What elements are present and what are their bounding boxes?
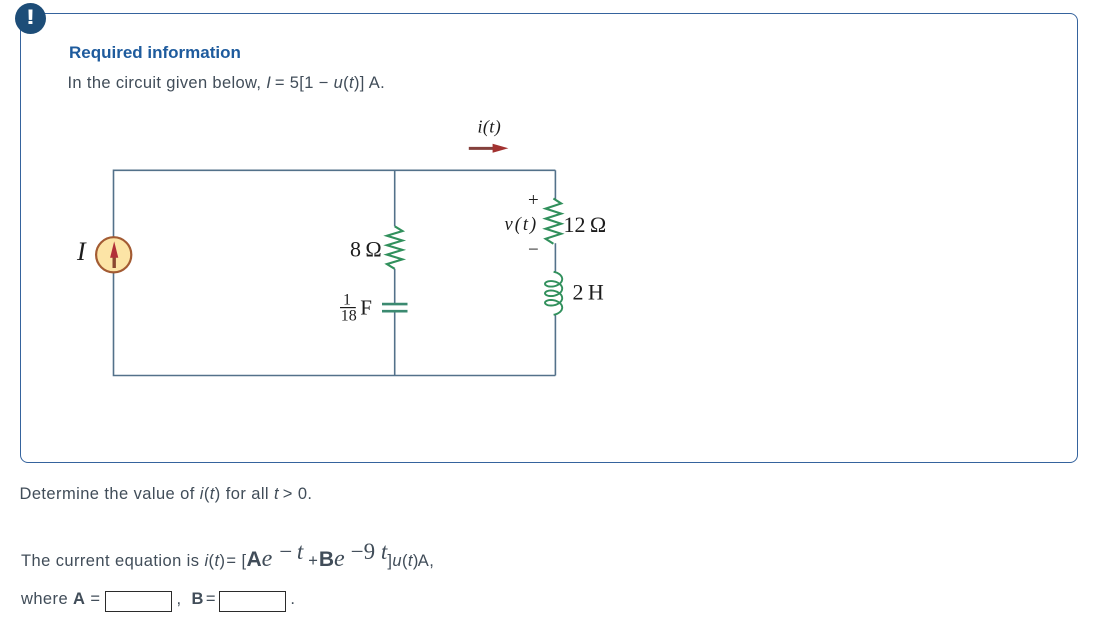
capacitor C1 1/18 F — [382, 304, 408, 311]
wire outer loop (top, left, bottom) — [114, 170, 556, 375]
svg-text:2 H: 2 H — [573, 279, 604, 304]
svg-text:1: 1 — [343, 292, 351, 309]
wire middle branch lower — [394, 312, 396, 375]
wire right branch upper — [554, 170, 556, 199]
svg-text:i(t): i(t) — [478, 117, 502, 138]
question line — [20, 485, 313, 504]
exclamation icon — [15, 3, 46, 34]
resistor R1 8 ohm — [387, 226, 403, 268]
info card border — [20, 13, 1078, 463]
svg-text:12 Ω: 12 Ω — [564, 212, 607, 237]
label 1/18 F — [340, 292, 372, 325]
wire middle branch between resistor and capacitor — [394, 269, 396, 303]
resistor R2 12 ohm — [546, 199, 562, 244]
heading — [69, 43, 241, 63]
current source I — [96, 237, 131, 272]
equation line — [21, 546, 434, 573]
wire right branch between resistor and inductor — [554, 243, 556, 272]
inductor L1 2 H — [545, 272, 562, 315]
svg-text:−: − — [528, 240, 539, 261]
svg-text:8 Ω: 8 Ω — [350, 237, 382, 262]
wire right branch lower — [554, 315, 556, 376]
svg-text:F: F — [360, 296, 372, 320]
wire middle branch upper — [394, 170, 396, 226]
arrow i(t) — [469, 144, 509, 153]
svg-text:v(t): v(t) — [505, 215, 539, 235]
answer line — [21, 590, 295, 612]
svg-text:18: 18 — [341, 308, 357, 325]
svg-text:+: + — [528, 190, 539, 211]
problem statement — [68, 74, 386, 93]
svg-text:I: I — [76, 237, 87, 266]
